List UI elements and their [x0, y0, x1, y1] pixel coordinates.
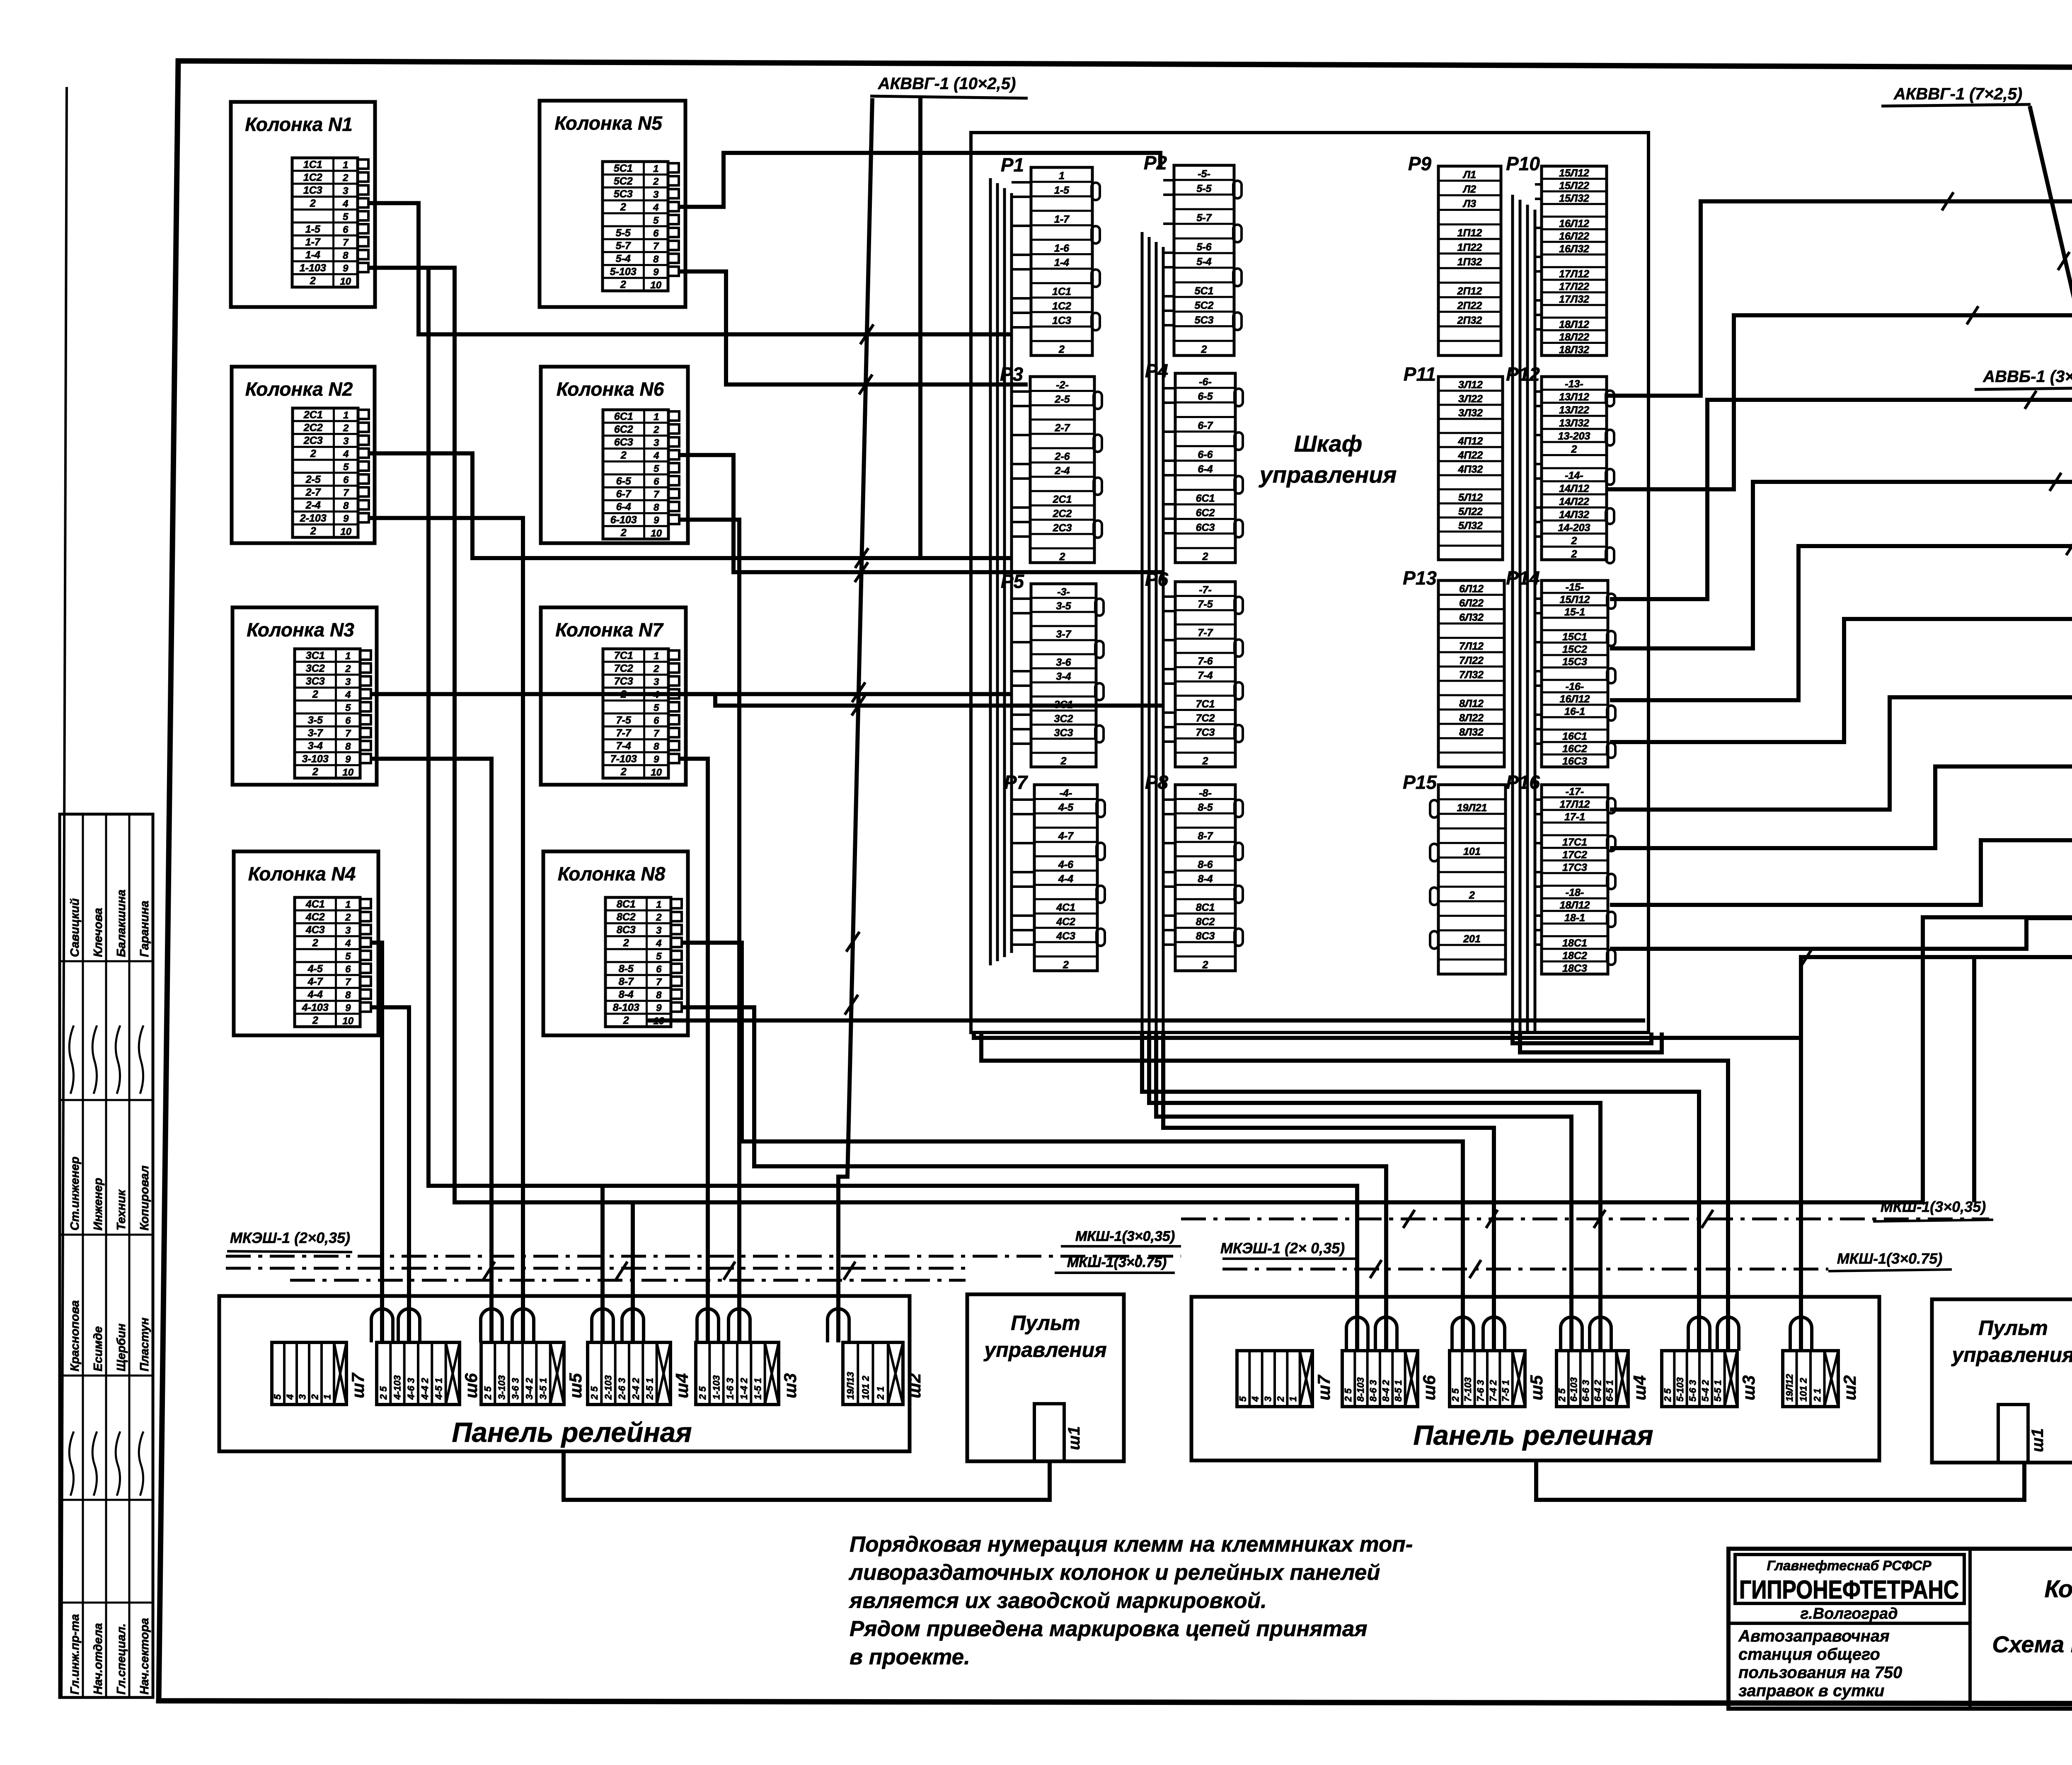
svg-text:4: 4: [345, 689, 351, 701]
svg-text:Л3: Л3: [1462, 198, 1476, 210]
svg-text:8: 8: [345, 989, 351, 1001]
cable trunk left third: [290, 1279, 966, 1282]
svg-text:5: 5: [653, 215, 659, 226]
svg-text:5С1: 5С1: [614, 162, 633, 174]
svg-text:Гл.инж.пр-та: Гл.инж.пр-та: [68, 1614, 82, 1695]
wire: [368, 268, 2072, 1202]
relay strip P10: [1506, 153, 1607, 356]
svg-text:ш1: ш1: [1065, 1426, 1083, 1450]
relay strip P2: [1144, 152, 1242, 355]
svg-text:1: 1: [1059, 170, 1065, 182]
svg-text:5Л12: 5Л12: [1458, 492, 1483, 503]
svg-text:6С3: 6С3: [1196, 522, 1215, 533]
svg-text:3: 3: [345, 676, 351, 687]
signature table entries: [68, 890, 151, 1695]
svg-text:7Л32: 7Л32: [1459, 669, 1484, 681]
svg-text:8Л22: 8Л22: [1459, 712, 1484, 724]
svg-text:P10: P10: [1506, 153, 1540, 174]
svg-text:4: 4: [653, 450, 659, 462]
svg-text:2: 2: [310, 275, 316, 287]
svg-text:МКЭШ-1 (2× 0,35): МКЭШ-1 (2× 0,35): [1220, 1240, 1345, 1257]
svg-text:2: 2: [1059, 551, 1065, 563]
kolonka box N5: [540, 101, 685, 307]
wire: [1974, 957, 2072, 1202]
svg-text:6С1: 6С1: [1196, 493, 1215, 504]
svg-text:1-4: 1-4: [1054, 257, 1069, 268]
svg-text:201: 201: [1463, 933, 1481, 945]
cable trunk MKESH left: [226, 1255, 1181, 1258]
terminal block kolonka N3: [295, 649, 360, 778]
svg-text:9: 9: [345, 1003, 351, 1014]
svg-text:6: 6: [345, 964, 351, 975]
svg-text:6-6: 6-6: [1198, 449, 1213, 461]
wire: [1801, 957, 1974, 1038]
svg-text:5-4: 5-4: [1196, 256, 1211, 268]
svg-text:6-4: 6-4: [616, 501, 631, 513]
svg-text:5С3: 5С3: [614, 189, 633, 200]
wire: [369, 518, 523, 1342]
note text: [848, 1532, 1413, 1669]
svg-text:4-4 2: 4-4 2: [419, 1378, 430, 1400]
terminal block ш3: [1662, 1317, 1758, 1407]
svg-text:2: 2: [656, 912, 662, 923]
svg-text:является их заводской марки: является их заводской маркировкой.: [848, 1588, 1267, 1613]
terminal block kolonka N1: [292, 158, 358, 287]
svg-text:5-5: 5-5: [1196, 183, 1212, 194]
svg-text:2 5: 2 5: [1450, 1388, 1461, 1402]
svg-text:1-6 3: 1-6 3: [725, 1378, 736, 1400]
svg-text:2-5: 2-5: [1054, 394, 1070, 405]
svg-text:2-7: 2-7: [305, 487, 321, 498]
svg-text:7-103: 7-103: [610, 753, 637, 765]
terminal block ш7: [272, 1342, 368, 1405]
kolonka box N1: [231, 102, 375, 307]
terminal block ш4: [1556, 1317, 1649, 1407]
svg-text:9: 9: [343, 263, 349, 274]
svg-text:ш3: ш3: [780, 1373, 800, 1398]
svg-text:18Л22: 18Л22: [1559, 331, 1589, 343]
svg-text:Техник: Техник: [115, 1189, 128, 1231]
relay panel left: [219, 1296, 910, 1451]
wire: [371, 759, 491, 1342]
svg-text:1: 1: [653, 163, 658, 174]
svg-text:2: 2: [345, 912, 351, 923]
svg-text:17Л12: 17Л12: [1559, 268, 1589, 280]
svg-text:4-5: 4-5: [307, 963, 323, 974]
svg-text:P11: P11: [1404, 363, 1436, 385]
cabinet wiring bundle: [1141, 232, 1144, 1032]
svg-text:-6-: -6-: [1199, 376, 1212, 388]
svg-text:3: 3: [343, 435, 349, 447]
svg-text:7-6 3: 7-6 3: [1475, 1380, 1486, 1402]
svg-text:15Л32: 15Л32: [1559, 193, 1589, 204]
svg-text:6-4 2: 6-4 2: [1592, 1380, 1603, 1402]
wire: [371, 943, 382, 1342]
svg-text:8: 8: [653, 254, 659, 265]
svg-text:10: 10: [342, 1015, 353, 1027]
svg-text:8-5: 8-5: [619, 963, 634, 974]
svg-text:Колонка N1: Колонка N1: [245, 114, 353, 135]
svg-text:3-103: 3-103: [302, 753, 329, 765]
svg-text:7: 7: [656, 977, 662, 988]
svg-text:7-7: 7-7: [1198, 627, 1213, 638]
svg-text:8: 8: [343, 500, 349, 511]
svg-text:2-6 3: 2-6 3: [617, 1378, 627, 1400]
svg-text:5: 5: [1237, 1396, 1248, 1402]
svg-text:в проекте.: в проекте.: [850, 1645, 970, 1669]
svg-text:8С1: 8С1: [617, 898, 636, 910]
svg-text:1С2: 1С2: [303, 172, 322, 184]
svg-text:4С1: 4С1: [305, 898, 325, 910]
svg-text:ш3: ш3: [1739, 1375, 1758, 1400]
svg-text:ш4: ш4: [1630, 1375, 1649, 1400]
svg-text:2: 2: [342, 172, 349, 184]
svg-text:-3-: -3-: [1057, 586, 1070, 598]
svg-text:1: 1: [322, 1394, 333, 1400]
relay strip P4: [1145, 360, 1243, 563]
svg-text:3С3: 3С3: [306, 676, 325, 687]
svg-text:5С3: 5С3: [1195, 314, 1214, 326]
sheet left edge line: [61, 87, 67, 1699]
svg-text:3: 3: [656, 925, 662, 936]
svg-text:МКШ-1(3×0,35): МКШ-1(3×0,35): [1075, 1228, 1175, 1244]
svg-text:2 1: 2 1: [875, 1386, 886, 1400]
svg-text:1-7: 1-7: [305, 237, 321, 248]
relay strip P8: [1145, 771, 1243, 971]
svg-text:-16-: -16-: [1566, 681, 1584, 693]
svg-text:6Л12: 6Л12: [1459, 583, 1484, 595]
svg-text:4-4: 4-4: [307, 989, 323, 1001]
wire: [631, 1202, 635, 1342]
wire to pump starter 15: [1610, 482, 2072, 648]
svg-text:8С1: 8С1: [1196, 902, 1215, 914]
svg-text:8-5 1: 8-5 1: [1393, 1380, 1404, 1402]
svg-text:8: 8: [343, 250, 349, 261]
svg-text:17Л32: 17Л32: [1559, 294, 1589, 305]
wire: [371, 692, 1012, 696]
terminal block ш5: [1450, 1317, 1546, 1407]
svg-text:-2-: -2-: [1056, 379, 1069, 391]
terminal block kolonka N5: [603, 162, 668, 291]
svg-text:4П12: 4П12: [1458, 435, 1483, 447]
svg-text:8-5: 8-5: [1198, 802, 1213, 813]
cable trunk left second: [226, 1267, 966, 1270]
svg-text:18С2: 18С2: [1562, 950, 1587, 962]
title block org name: [1735, 1555, 1964, 1603]
svg-text:8С3: 8С3: [1196, 931, 1215, 942]
svg-text:3-7: 3-7: [308, 728, 323, 739]
title block project description: [1738, 1627, 1902, 1700]
svg-text:Краснопова: Краснопова: [68, 1300, 82, 1371]
svg-text:3-4 2: 3-4 2: [524, 1378, 535, 1400]
svg-text:7Л12: 7Л12: [1459, 641, 1484, 652]
terminal block ш6: [1342, 1317, 1439, 1407]
wire: [646, 1018, 1645, 1023]
staircase wire to sh3 right: [1142, 1032, 1699, 1351]
svg-text:2-4: 2-4: [305, 500, 321, 511]
svg-text:2С3: 2С3: [1053, 522, 1072, 534]
relay panel right: [1191, 1297, 1879, 1460]
svg-text:4: 4: [656, 938, 661, 949]
svg-text:4С1: 4С1: [1056, 902, 1075, 914]
svg-text:Автозаправочная: Автозаправочная: [1738, 1627, 1890, 1645]
svg-text:5: 5: [343, 462, 349, 473]
connector Sh1 right: [1998, 1405, 2028, 1463]
svg-text:8-4 2: 8-4 2: [1380, 1380, 1391, 1402]
svg-text:-5-: -5-: [1198, 168, 1210, 180]
svg-text:2: 2: [1275, 1396, 1286, 1402]
svg-text:Ст.инженер: Ст.инженер: [68, 1157, 82, 1231]
wire: [679, 153, 1160, 207]
staircase wire to sh4 right: [1156, 1032, 1571, 1351]
svg-text:7С1: 7С1: [1196, 698, 1215, 710]
svg-text:10: 10: [650, 280, 661, 291]
svg-text:1: 1: [343, 410, 349, 421]
svg-text:8: 8: [654, 502, 659, 513]
svg-text:4С3: 4С3: [305, 924, 325, 936]
svg-text:4-6 3: 4-6 3: [406, 1378, 416, 1400]
svg-text:16С3: 16С3: [1562, 756, 1587, 767]
staircase wire to sh2 right: [974, 1032, 1801, 1351]
wire: [682, 943, 1463, 1351]
svg-text:ш6: ш6: [1419, 1375, 1439, 1400]
svg-text:2 5: 2 5: [697, 1386, 708, 1400]
svg-text:2: 2: [1469, 890, 1475, 901]
svg-text:7-5 1: 7-5 1: [1500, 1380, 1511, 1402]
relay strip P7: [1004, 771, 1105, 971]
svg-text:6: 6: [343, 474, 349, 486]
svg-text:3: 3: [343, 185, 349, 196]
svg-text:7-4: 7-4: [1198, 670, 1213, 682]
svg-text:Балакшина: Балакшина: [115, 890, 128, 957]
svg-text:4-103: 4-103: [302, 1002, 329, 1013]
svg-text:7-5: 7-5: [616, 714, 632, 726]
svg-text:6-5: 6-5: [1198, 391, 1213, 402]
svg-text:Инженер: Инженер: [92, 1178, 105, 1231]
svg-text:2 5: 2 5: [1662, 1388, 1673, 1402]
terminal block kolonka N4: [295, 897, 360, 1027]
svg-text:АКВВГ-1 (10×2,5): АКВВГ-1 (10×2,5): [878, 75, 1016, 93]
relay strip P13: [1403, 567, 1504, 767]
svg-text:Нач.отдела: Нач.отдела: [92, 1623, 105, 1695]
wire: [600, 1186, 605, 1342]
svg-text:2С3: 2С3: [303, 435, 323, 447]
svg-text:8-7: 8-7: [1198, 830, 1213, 842]
svg-text:1: 1: [345, 899, 351, 910]
svg-text:Колонка N2: Колонка N2: [245, 378, 353, 400]
svg-text:5-103: 5-103: [610, 266, 637, 278]
wire: [679, 694, 1163, 706]
svg-text:1-7: 1-7: [1054, 213, 1070, 225]
svg-text:3Л12: 3Л12: [1458, 379, 1483, 391]
svg-text:3-7: 3-7: [1056, 629, 1071, 640]
kolonka box N4: [234, 851, 378, 1035]
svg-text:7-4 2: 7-4 2: [1488, 1380, 1498, 1402]
relay strip P5: [1001, 571, 1104, 767]
svg-text:2: 2: [620, 527, 627, 539]
svg-text:4: 4: [1250, 1396, 1261, 1402]
svg-text:3: 3: [297, 1394, 308, 1400]
svg-text:1-4: 1-4: [305, 249, 320, 261]
svg-text:6С1: 6С1: [614, 411, 633, 422]
svg-text:16-1: 16-1: [1564, 706, 1585, 718]
svg-text:19Л13: 19Л13: [845, 1372, 856, 1400]
svg-text:16Л32: 16Л32: [1559, 243, 1589, 255]
svg-text:7: 7: [343, 487, 349, 498]
svg-text:Рядом приведена маркировка: Рядом приведена маркировка цепей принята…: [850, 1617, 1368, 1641]
svg-text:6-103: 6-103: [610, 514, 637, 526]
svg-text:Колонка N8: Колонка N8: [558, 863, 666, 885]
svg-text:15-1: 15-1: [1564, 607, 1585, 618]
wire bus: [428, 270, 1357, 1351]
svg-text:7С2: 7С2: [1196, 713, 1215, 724]
svg-text:6-103: 6-103: [1569, 1377, 1579, 1402]
svg-text:МКШ-1(3×0,35): МКШ-1(3×0,35): [1881, 1198, 1986, 1215]
svg-text:17Л12: 17Л12: [1560, 798, 1590, 810]
svg-text:Колонка N6: Колонка N6: [557, 378, 664, 400]
svg-text:P15: P15: [1403, 771, 1437, 793]
svg-text:5: 5: [345, 702, 351, 713]
svg-text:Шкаф: Шкаф: [1294, 430, 1363, 457]
svg-text:пользования на 750: пользования на 750: [1738, 1663, 1902, 1682]
svg-text:2-6: 2-6: [1054, 451, 1070, 462]
svg-text:2-4: 2-4: [1054, 465, 1070, 477]
svg-text:2: 2: [653, 424, 659, 435]
cabinet wiring bundle: [1511, 195, 1514, 1032]
svg-text:4-103: 4-103: [392, 1375, 402, 1400]
svg-text:МКШ-1(3×0.75): МКШ-1(3×0.75): [1837, 1250, 1942, 1267]
svg-text:16Л12: 16Л12: [1560, 694, 1590, 705]
svg-text:7: 7: [343, 237, 349, 248]
svg-text:ш7: ш7: [348, 1373, 368, 1398]
svg-text:Нач.сектора: Нач.сектора: [138, 1618, 151, 1695]
svg-text:5: 5: [654, 702, 659, 713]
svg-text:ш7: ш7: [1314, 1375, 1334, 1400]
svg-text:г.Волгоград: г.Волгоград: [1800, 1605, 1898, 1622]
terminal block kolonka N7: [603, 649, 668, 778]
wire to kolonka 13: [1607, 201, 2072, 396]
svg-text:1С2: 1С2: [1052, 300, 1071, 312]
svg-text:2: 2: [312, 689, 318, 700]
svg-text:16Л12: 16Л12: [1559, 218, 1589, 230]
svg-text:6-5 1: 6-5 1: [1604, 1380, 1615, 1402]
svg-text:7-5: 7-5: [1198, 599, 1213, 610]
wire to pump starter 16: [1610, 619, 2072, 742]
svg-text:15С3: 15С3: [1562, 656, 1587, 668]
terminal block kolonka N6: [603, 410, 668, 539]
svg-text:6-7: 6-7: [1198, 420, 1213, 431]
svg-text:6: 6: [654, 715, 659, 726]
svg-text:2: 2: [343, 423, 349, 434]
svg-text:9: 9: [656, 1003, 662, 1014]
svg-text:4П22: 4П22: [1458, 450, 1483, 461]
svg-text:6С2: 6С2: [614, 424, 633, 435]
svg-text:Есимде: Есимде: [92, 1326, 105, 1371]
svg-text:3: 3: [654, 437, 659, 448]
svg-text:5-6: 5-6: [1196, 241, 1212, 253]
svg-text:2: 2: [1202, 959, 1208, 971]
svg-text:2: 2: [623, 937, 629, 949]
svg-text:2П32: 2П32: [1457, 314, 1482, 326]
svg-text:1: 1: [343, 160, 348, 171]
title block: [1728, 1549, 2072, 1709]
wire to pump switch 15: [1610, 400, 2072, 599]
svg-text:2: 2: [345, 663, 351, 675]
svg-text:3: 3: [345, 925, 351, 936]
svg-text:2 5: 2 5: [1343, 1388, 1353, 1402]
svg-text:2 5: 2 5: [378, 1386, 389, 1400]
svg-text:4П32: 4П32: [1458, 464, 1483, 475]
svg-text:ш5: ш5: [566, 1373, 585, 1398]
svg-text:10: 10: [340, 526, 351, 537]
svg-text:2-103: 2-103: [603, 1375, 613, 1400]
control cabinet box (Shkaf upravleniya): [971, 133, 1648, 1032]
svg-text:2: 2: [620, 279, 626, 290]
svg-text:1: 1: [654, 411, 659, 423]
svg-text:6С2: 6С2: [1196, 507, 1215, 519]
connector Sh1 left: [1034, 1404, 1064, 1461]
svg-text:14-203: 14-203: [1558, 522, 1590, 534]
svg-text:2-7: 2-7: [1054, 422, 1070, 434]
svg-text:5: 5: [656, 951, 662, 962]
svg-text:Гаранина: Гаранина: [138, 901, 151, 957]
svg-text:Пульт: Пульт: [1011, 1311, 1080, 1335]
svg-text:7: 7: [654, 728, 660, 739]
svg-text:5-103: 5-103: [1675, 1377, 1685, 1402]
svg-text:8С2: 8С2: [617, 912, 636, 923]
relay strip P1: [1001, 154, 1100, 355]
svg-text:16Л22: 16Л22: [1559, 230, 1589, 242]
staircase wire to sh3 right: [981, 1032, 1728, 1351]
terminal block ш6: [371, 1309, 481, 1405]
wire trunk vertical: [918, 98, 922, 558]
svg-text:ГИПРОНЕФТЕТРАНС: ГИПРОНЕФТЕТРАНС: [1739, 1576, 1959, 1604]
svg-text:8Л12: 8Л12: [1459, 698, 1484, 709]
svg-text:3-4: 3-4: [308, 740, 323, 752]
svg-text:17С1: 17С1: [1562, 837, 1587, 848]
svg-text:2 5: 2 5: [1556, 1388, 1567, 1402]
svg-text:Панель релеиная: Панель релеиная: [1413, 1420, 1653, 1451]
svg-text:Колонка N7: Колонка N7: [555, 619, 664, 641]
terminal block kolonka N8: [605, 897, 671, 1027]
svg-text:2: 2: [1201, 344, 1207, 355]
svg-text:8-4: 8-4: [1198, 873, 1213, 885]
svg-text:6Л22: 6Л22: [1459, 597, 1484, 609]
relay strip P15: [1403, 771, 1506, 974]
cabinet wiring bundle: [989, 178, 992, 965]
kolonka box N8: [543, 851, 688, 1035]
svg-text:3Л32: 3Л32: [1458, 407, 1483, 419]
wire: [679, 271, 1028, 384]
svg-text:-13-: -13-: [1565, 378, 1583, 390]
svg-text:P7: P7: [1004, 771, 1029, 793]
svg-text:1-4 2: 1-4 2: [738, 1378, 749, 1400]
svg-text:ш2: ш2: [905, 1373, 924, 1398]
svg-text:7С2: 7С2: [614, 663, 633, 675]
svg-text:5-7: 5-7: [1196, 212, 1212, 224]
staircase wire to sh5 right: [1163, 1032, 1494, 1351]
svg-text:2-103: 2-103: [300, 513, 327, 524]
svg-text:2 1: 2 1: [1812, 1388, 1823, 1402]
staircase wire to sh4 right: [1149, 1032, 1600, 1351]
svg-text:3Л22: 3Л22: [1458, 393, 1483, 405]
wire: [1520, 1032, 1662, 1052]
svg-text:10: 10: [651, 528, 662, 539]
svg-text:18С3: 18С3: [1562, 963, 1587, 974]
svg-text:8-4: 8-4: [619, 989, 634, 1001]
svg-text:6: 6: [654, 476, 659, 487]
svg-text:2: 2: [620, 201, 626, 213]
